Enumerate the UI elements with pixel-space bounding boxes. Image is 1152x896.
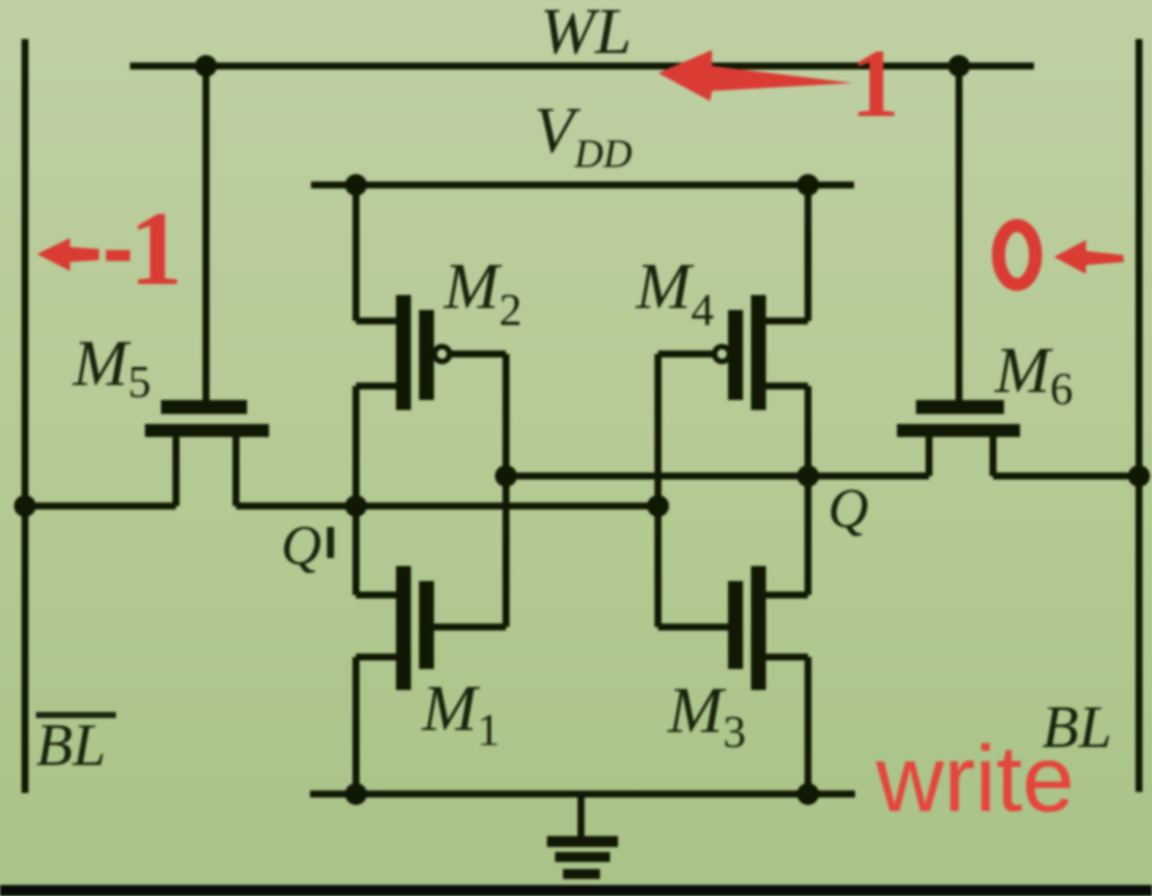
junction VDD left bbox=[345, 174, 367, 196]
wire M2 drain to M1 drain (node Qbar) bbox=[356, 386, 396, 595]
svg-text:write: write bbox=[875, 726, 1074, 831]
junction ground right bbox=[797, 783, 819, 805]
wire M6 gate riser bbox=[956, 66, 963, 401]
wire M3 source to ground bbox=[766, 657, 808, 794]
wire M6 source drain stubs bbox=[929, 437, 993, 476]
transistor M2 channel plate bbox=[396, 295, 411, 410]
wire M5 drain to node Qbar cross-coupling bbox=[236, 503, 658, 510]
wire M6 right stub to BL bbox=[993, 473, 1139, 480]
transistor M5 gate plate bbox=[161, 400, 247, 414]
wire WL word line bbox=[130, 63, 1034, 70]
svg-text:1: 1 bbox=[130, 190, 183, 307]
red arrow left -1 bbox=[37, 238, 99, 271]
transistor M6 channel plate bbox=[897, 424, 1020, 437]
svg-text:1: 1 bbox=[851, 30, 900, 138]
red digit 0 right bbox=[999, 226, 1036, 285]
junction ground left bbox=[345, 783, 367, 805]
wire BL bit line right bbox=[1136, 39, 1143, 792]
junction BL right bbox=[1128, 465, 1150, 487]
svg-text:M5: M5 bbox=[72, 327, 151, 407]
red arrow right bbox=[1054, 240, 1124, 274]
junction node Q bbox=[797, 465, 819, 487]
junction node Qbar bbox=[345, 495, 367, 517]
transistor M6 gate plate bbox=[916, 400, 1004, 414]
transistor M5 channel plate bbox=[145, 424, 269, 437]
svg-text:BL: BL bbox=[36, 712, 106, 778]
svg-text:M6: M6 bbox=[994, 334, 1073, 414]
svg-text:Q: Q bbox=[828, 478, 868, 540]
black bottom bar bbox=[0, 885, 1152, 896]
transistor M3 channel plate bbox=[751, 566, 766, 690]
transistor M4 gate plate bbox=[728, 310, 743, 400]
transistor M4 gate bubble bbox=[715, 347, 730, 362]
svg-text:M3: M3 bbox=[667, 674, 746, 757]
wire ground rail bbox=[310, 791, 855, 798]
transistor M2 gate plate bbox=[419, 310, 434, 400]
wire left inverter gate line bbox=[434, 354, 506, 627]
svg-text:Q: Q bbox=[281, 515, 321, 577]
wire M4 drain to M3 drain (node Q) bbox=[766, 386, 808, 595]
transistor M3 gate plate bbox=[728, 581, 743, 669]
junction BLbar left bbox=[14, 495, 36, 517]
svg-text:M2: M2 bbox=[443, 250, 522, 335]
junction VDD right bbox=[797, 174, 819, 196]
wire VDD to M2 source bbox=[356, 182, 396, 321]
svg-text:M1: M1 bbox=[421, 672, 500, 755]
ground bar 2 bbox=[555, 852, 610, 862]
transistor M1 gate plate bbox=[419, 581, 434, 669]
svg-text:VDD: VDD bbox=[534, 94, 632, 176]
wire M5 gate riser bbox=[203, 66, 210, 401]
junction WL left bbox=[195, 55, 217, 77]
ground bar 3 bbox=[563, 869, 600, 879]
wire node Q cross-coupling bbox=[506, 473, 929, 480]
junction node Q gate tap bbox=[495, 465, 517, 487]
wire ground stub bbox=[578, 794, 585, 838]
wire M1 source to ground bbox=[356, 657, 396, 794]
red minus sign bbox=[106, 250, 130, 261]
wire M5 source drain stubs bbox=[176, 437, 236, 506]
wire right inverter gate line bbox=[658, 354, 728, 627]
prime tick of node Qbar label bbox=[327, 527, 334, 558]
svg-text:M4: M4 bbox=[635, 250, 714, 335]
wire VDD rail bbox=[311, 182, 854, 189]
wire BLbar bit line left bbox=[22, 39, 29, 793]
svg-text:WL: WL bbox=[540, 0, 632, 68]
wire VDD to M4 source bbox=[766, 182, 808, 321]
transistor M2 gate bubble bbox=[435, 347, 450, 362]
junction node Qbar gate tap bbox=[647, 495, 669, 517]
ground bar 1 bbox=[547, 836, 618, 847]
red arrow on WL bbox=[658, 50, 853, 101]
wire BLbar to M5 source bbox=[25, 503, 176, 510]
junction WL right bbox=[948, 55, 970, 77]
transistor M4 channel plate bbox=[751, 295, 766, 410]
transistor M1 channel plate bbox=[396, 566, 411, 690]
overline of BLbar bbox=[36, 712, 116, 718]
